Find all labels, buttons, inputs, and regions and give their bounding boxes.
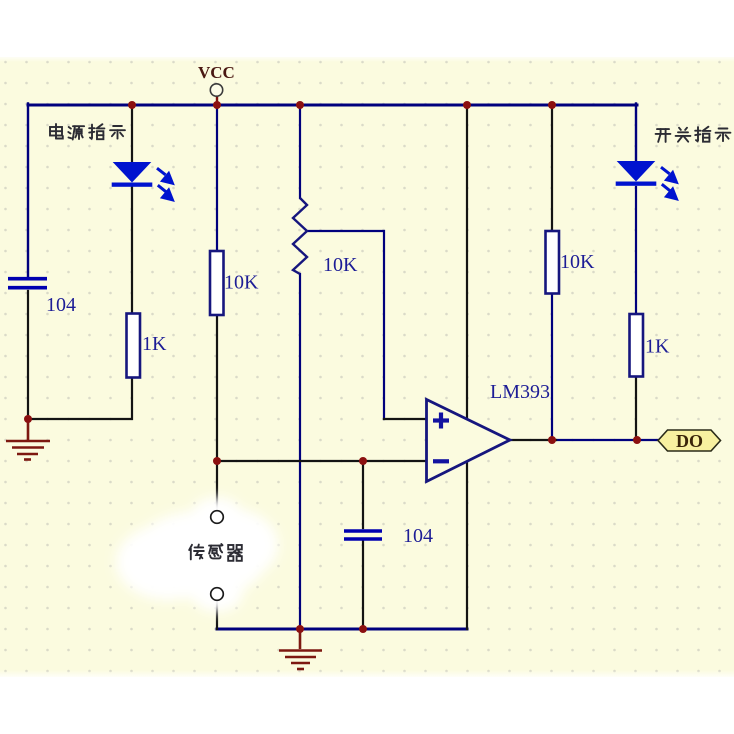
svg-text:LM393: LM393: [490, 381, 550, 403]
svg-text:104: 104: [46, 294, 76, 316]
svg-text:10K: 10K: [323, 254, 358, 276]
svg-text:VCC: VCC: [198, 63, 235, 82]
svg-text:1K: 1K: [142, 333, 167, 355]
svg-text:104: 104: [403, 525, 433, 547]
svg-text:DO: DO: [676, 431, 703, 451]
svg-text:1K: 1K: [645, 336, 670, 358]
svg-text:10K: 10K: [224, 272, 259, 294]
svg-text:10K: 10K: [560, 251, 595, 273]
